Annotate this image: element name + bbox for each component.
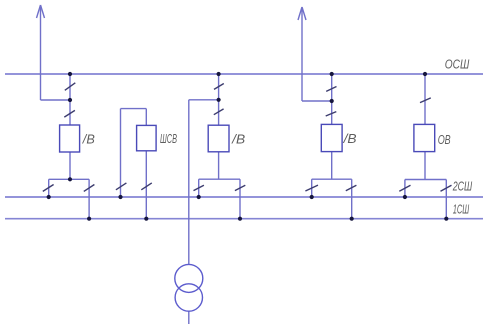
svg-text:2СШ: 2СШ (452, 178, 472, 193)
svg-text:1СШ: 1СШ (453, 202, 470, 217)
svg-text:/В: /В (82, 132, 95, 147)
svg-text:/В: /В (343, 131, 357, 146)
svg-text:/В: /В (231, 131, 245, 146)
svg-text:ОСШ: ОСШ (445, 56, 470, 71)
svg-text:ОВ: ОВ (438, 132, 451, 147)
svg-text:ШСВ: ШСВ (160, 131, 177, 146)
